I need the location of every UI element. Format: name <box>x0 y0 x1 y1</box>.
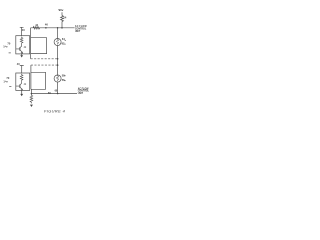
svg-text:1^e: 1^e <box>3 79 8 83</box>
wire left edge of box M1 from bus down <box>30 28 32 59</box>
svg-text:62: 62 <box>62 42 65 46</box>
supply stub terminal T2 (cap + lead into box P2) <box>20 66 24 74</box>
svg-text:FIGURE 4: FIGURE 4 <box>44 108 66 113</box>
svg-text:UNIT: UNIT <box>78 93 84 95</box>
label 40 (right of stub T1) <box>22 28 25 32</box>
svg-text:58: 58 <box>62 73 65 77</box>
svg-text:1^e: 1^e <box>3 45 8 49</box>
label 64 (right of L1 top) <box>62 37 66 41</box>
dashed link D1 <box>31 58 58 60</box>
svg-text:42: 42 <box>24 46 27 49</box>
wire bottom output line <box>31 93 77 95</box>
svg-text:46: 46 <box>45 23 48 27</box>
wire from HV label down to R1 <box>61 12 63 15</box>
wire R1 to bus <box>61 22 63 28</box>
svg-text:54: 54 <box>63 16 66 20</box>
node HV supply label <box>58 8 64 12</box>
lamp L1 (circle with filament) <box>54 39 61 46</box>
ground arrow G2 (below P2) <box>21 90 23 94</box>
svg-text:CONTROL: CONTROL <box>75 28 87 30</box>
wire L1 to L2 <box>57 46 59 76</box>
transistor Q2 (inside P2) <box>16 82 23 91</box>
ground arrow G1 (below P1) <box>21 54 23 56</box>
svg-text:40: 40 <box>22 28 25 32</box>
label 78 with leader (left of P2) <box>3 76 11 87</box>
box P1 phototube module (top left) <box>16 36 30 54</box>
dashed link D2 <box>31 64 58 66</box>
label 60 (left of wire above line) <box>55 90 58 93</box>
svg-text:UNIT: UNIT <box>75 31 81 33</box>
node junction dot A <box>45 27 47 29</box>
box P2 phototube module (bottom left) <box>16 73 30 90</box>
label 4b (left of stub T2) <box>17 62 20 66</box>
label 42b (inside P2 right) <box>24 83 27 86</box>
wire L2 down to output line <box>57 82 59 94</box>
wire left edge of box M2 from D2 down <box>30 65 32 89</box>
supply stub terminal T1 (cap + lead into box P1) <box>20 27 24 35</box>
label 42 (inside P1 right) <box>24 46 27 49</box>
svg-text:ʹ90v: ʹ90v <box>58 8 64 12</box>
label TO FLOW CONTROL UNIT (top right) <box>75 25 87 33</box>
node junction dot E <box>31 93 33 95</box>
label 76 with leader (left of P1) <box>3 42 11 54</box>
svg-text:40: 40 <box>17 62 20 66</box>
node junction dot F <box>57 93 59 95</box>
node dot D2-wire <box>57 64 59 66</box>
label 44 (above R2) <box>35 23 38 27</box>
node dot D1-wire <box>57 58 59 60</box>
wire main vertical (bus to lamp L1) <box>57 28 59 39</box>
lamp L2 (circle with filament) <box>54 75 61 82</box>
ground arrow G3 (below R5) <box>30 105 33 107</box>
label 50 (on output line) <box>48 91 51 95</box>
label 46 (above junction A) <box>45 23 48 27</box>
label AC FLOW CONTROL UNIT (bottom right) <box>78 87 90 95</box>
label 54 (right of R1) <box>63 16 66 20</box>
node junction dot B <box>57 27 59 29</box>
wire M2 bottom to output line <box>30 89 32 95</box>
label 58 (right of L2 top) <box>62 73 66 77</box>
resistor R2 (horizontal, on bus) <box>33 26 40 29</box>
svg-text:70: 70 <box>7 42 10 46</box>
resistor R3 (inside P1) <box>20 37 23 45</box>
caption FIGURE 4 <box>44 108 66 113</box>
resistor R5 (shunt below output line) <box>30 95 33 103</box>
box M2 (middle bottom) <box>31 72 46 89</box>
svg-text:42: 42 <box>24 83 27 86</box>
resistor R1 (vertical, top right) <box>61 16 64 22</box>
label 56 (right of L2 bottom) <box>62 78 66 82</box>
svg-text:56: 56 <box>62 78 65 82</box>
node junction dot C <box>61 27 63 29</box>
transistor Q1 (inside P1) <box>16 44 23 54</box>
resistor R4 (inside P2) <box>20 74 23 82</box>
label 62 (right of L1 bottom) <box>62 42 66 46</box>
box M1 (middle top) <box>31 38 47 54</box>
wire top bus <box>31 27 75 29</box>
